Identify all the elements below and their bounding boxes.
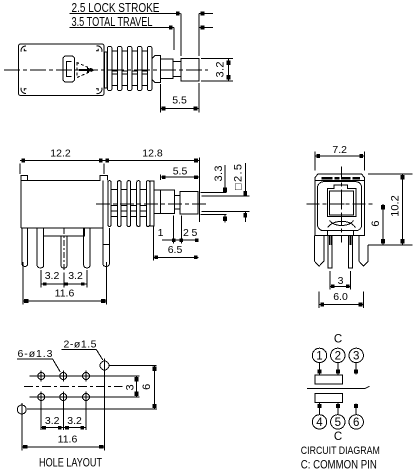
small hole 3 xyxy=(83,371,90,382)
top row line xyxy=(30,375,140,377)
wire terminal 6 open xyxy=(354,404,358,415)
bellows collar view1 xyxy=(104,52,107,88)
dimension label 2.5 LOCK STROKE xyxy=(72,0,160,15)
body right edge xyxy=(102,181,104,229)
svg-text:1: 1 xyxy=(316,351,322,363)
dim 6.0 text xyxy=(333,291,348,303)
movable contact line xyxy=(307,386,370,388)
right leg end view xyxy=(359,236,368,267)
switch body front view xyxy=(21,176,108,229)
button with keyway xyxy=(328,185,356,217)
terminal 4 xyxy=(312,415,326,429)
inner frame end view xyxy=(318,182,362,231)
bellows valleys view1 xyxy=(112,51,147,86)
extension line 6.5 left xyxy=(152,227,154,261)
body top edge line xyxy=(21,180,28,182)
dim 3.2 extension lines view1 xyxy=(201,59,233,82)
dim 5.5 view2 text xyxy=(173,166,188,178)
dim 10.2 extension lines xyxy=(368,174,413,245)
body bottom edge xyxy=(21,227,103,229)
plunger neck view2 xyxy=(174,196,180,210)
svg-text:1: 1 xyxy=(158,227,164,239)
svg-text:6: 6 xyxy=(370,221,382,227)
pin 5 view2 xyxy=(103,228,110,266)
label C bottom xyxy=(334,431,342,443)
dim 12.2 line xyxy=(20,159,104,163)
dim 11.6 line view2 xyxy=(23,299,107,303)
plunger end block view1 xyxy=(181,59,199,82)
spring dome arcs xyxy=(328,221,356,228)
label C: COMMON PIN xyxy=(301,459,377,470)
bellows ribs view2 xyxy=(108,181,150,227)
pin 2 view2 xyxy=(37,228,44,268)
dim 3.2 text view1 xyxy=(215,62,227,78)
pin 1 view2 xyxy=(22,228,28,266)
svg-text:3.2: 3.2 xyxy=(67,415,82,427)
dim 3.3 extension lines xyxy=(201,193,227,215)
dimension label 3.5 TOTAL TRAVEL xyxy=(72,14,153,29)
label CIRCUIT DIAGRAM xyxy=(301,445,380,457)
wire terminal 2 to contact xyxy=(336,363,340,375)
dim 5.5 view2 line xyxy=(161,174,200,180)
svg-text:2: 2 xyxy=(335,351,341,363)
pin 3 center view2 xyxy=(61,236,67,268)
leader line total travel xyxy=(70,26,175,30)
svg-text:6: 6 xyxy=(141,384,153,390)
vertical centerline end view xyxy=(340,166,342,242)
svg-text:5.5: 5.5 xyxy=(172,95,187,107)
dim 7.2 line xyxy=(315,154,365,158)
dim 7.2 text xyxy=(332,144,347,156)
dim 11.6 text hole layout xyxy=(58,434,78,446)
dim 3.2 texts hole layout xyxy=(45,415,82,427)
extension line plunger tip xyxy=(198,14,200,57)
extension line dim1 right xyxy=(180,216,182,244)
svg-text:4: 4 xyxy=(316,417,323,429)
inner pin left end view xyxy=(328,236,332,268)
dim 3.2 pair line hole layout xyxy=(41,426,86,429)
svg-text:5.5: 5.5 xyxy=(173,166,188,178)
wire terminal 5 to contact xyxy=(336,402,340,414)
hole B extension line xyxy=(27,408,157,410)
small hole 5 xyxy=(60,392,67,403)
center cross xyxy=(338,200,345,207)
dim 10.2 text xyxy=(390,195,402,216)
dim 3 hole layout text xyxy=(125,384,137,390)
centerline view2 xyxy=(96,203,209,205)
svg-text:C: C xyxy=(334,334,342,346)
terminal 2 xyxy=(331,348,345,362)
svg-text:11.6: 11.6 xyxy=(55,288,75,300)
dim 12.2 text xyxy=(50,148,71,160)
bellows ribs view1 xyxy=(107,47,152,91)
dim 2.5 text xyxy=(183,227,198,239)
pin 4 view2 xyxy=(84,228,90,268)
svg-text:6: 6 xyxy=(353,417,359,429)
bellows valleys view2 xyxy=(111,189,146,216)
dim 3 extension lines end view xyxy=(330,271,350,290)
centerline view1 xyxy=(4,69,208,71)
svg-text:12.2: 12.2 xyxy=(50,148,71,160)
dim 6 hole layout line xyxy=(153,366,157,410)
plunger neck view1 xyxy=(173,62,181,77)
dim 2.5 extension lines xyxy=(202,196,250,212)
plunger section A view1 xyxy=(152,56,160,83)
horizontal centerline end view xyxy=(307,203,375,205)
dim 3 hole layout line xyxy=(135,376,139,397)
body outline end view xyxy=(315,174,365,236)
pin 3 centerline dashed xyxy=(63,228,65,271)
svg-text:10.2: 10.2 xyxy=(390,195,402,216)
extension line total travel xyxy=(173,28,175,51)
bottom row line xyxy=(30,396,140,398)
terminal 1 xyxy=(312,348,326,362)
svg-text:3.2: 3.2 xyxy=(45,415,60,427)
svg-text:3: 3 xyxy=(353,351,359,363)
dim 12.2 extension line left xyxy=(19,164,21,175)
extension line lock stroke xyxy=(180,14,182,57)
dim 3 text end view xyxy=(338,275,344,287)
leader line lock stroke xyxy=(70,12,181,16)
svg-text:6-ø1.3: 6-ø1.3 xyxy=(18,348,53,360)
dim 3 line end view xyxy=(330,285,350,288)
dim 5.5 line view1 xyxy=(161,107,200,111)
center pedestal xyxy=(44,228,85,236)
dim 6.5 text xyxy=(168,244,183,256)
svg-text:3: 3 xyxy=(125,384,137,390)
dim 3.2 extension lines hole layout xyxy=(41,403,86,431)
dim 12.2 extension line mid xyxy=(103,164,105,175)
corner mark top-left xyxy=(21,46,26,52)
svg-text:□2.5: □2.5 xyxy=(233,164,245,190)
leader 6-dia1.3 xyxy=(17,359,60,372)
dim 11.6 text view2 xyxy=(55,288,75,300)
dim 1 text xyxy=(158,227,164,239)
plunger block view2 xyxy=(154,190,174,214)
svg-text:6.5: 6.5 xyxy=(168,244,183,256)
hole A extension line xyxy=(110,365,157,367)
small hole 4 xyxy=(38,392,45,403)
dim square-2.5 line xyxy=(244,163,248,222)
top strip dash bar xyxy=(322,177,360,180)
svg-text:6.0: 6.0 xyxy=(333,291,348,303)
dim 7.2 extension lines xyxy=(315,152,365,171)
wire terminal 3 open xyxy=(354,363,358,375)
latch arrow xyxy=(79,68,94,73)
svg-text:5: 5 xyxy=(192,227,198,239)
dim 6.0 line xyxy=(319,303,363,307)
svg-text:11.6: 11.6 xyxy=(58,434,78,446)
arrow right row2 xyxy=(199,26,213,30)
svg-text:12.8: 12.8 xyxy=(142,148,163,160)
dim 5.5 extension lines view1 xyxy=(161,83,200,113)
button inner square xyxy=(330,191,354,215)
svg-text:5: 5 xyxy=(335,417,341,429)
dim 3.2 line view1 xyxy=(227,59,231,82)
dim 3.2 texts view2 xyxy=(45,270,83,282)
corner mark bottom-left xyxy=(21,88,26,94)
extension line dim1 left xyxy=(173,216,175,244)
terminal 3 xyxy=(349,348,363,362)
switch body side view xyxy=(19,44,105,96)
dim 6.0 extension lines xyxy=(319,292,363,309)
bellows flange view2 xyxy=(150,181,154,226)
dim 10.2 line xyxy=(401,174,405,245)
svg-text:3.2: 3.2 xyxy=(68,270,83,282)
wire terminal 1 to contact xyxy=(318,363,322,375)
left leg end view xyxy=(315,236,324,267)
arrow right row1 xyxy=(199,12,213,16)
fixed contact bar bottom xyxy=(315,394,343,403)
terminal 6 xyxy=(349,415,363,429)
latch cam cone xyxy=(77,63,94,78)
dim 3.3 line xyxy=(223,165,227,223)
plunger section B view1 xyxy=(161,59,174,79)
dim 5.5 text view1 xyxy=(172,95,187,107)
dim square-2.5 text xyxy=(233,164,245,190)
dim 12.8 line xyxy=(104,159,199,163)
small hole 6 xyxy=(83,392,90,403)
corner mark bottom-right xyxy=(96,88,102,94)
dim 3.2 pair line view2 xyxy=(41,282,87,285)
center tab below body xyxy=(328,231,354,236)
svg-text:3.3: 3.3 xyxy=(213,166,225,182)
small hole 1 xyxy=(38,371,45,382)
hole A large top-right xyxy=(100,359,109,373)
wire terminal 4 to contact xyxy=(318,402,322,414)
svg-text:3.5 TOTAL TRAVEL: 3.5 TOTAL TRAVEL xyxy=(72,14,153,29)
latch bracket inside body xyxy=(63,56,75,82)
dim 3.2 extension lines view2 xyxy=(41,270,87,288)
svg-text:CIRCUIT DIAGRAM: CIRCUIT DIAGRAM xyxy=(301,445,380,457)
dim 11.6 extension lines view2 xyxy=(23,262,107,305)
fixed contact bar top xyxy=(315,375,343,384)
extension line plunger tip view2 xyxy=(198,158,200,223)
svg-text:3: 3 xyxy=(338,275,344,287)
dim 6.5 line xyxy=(153,256,198,259)
dim 12.8 text xyxy=(142,148,163,160)
svg-text:3.2: 3.2 xyxy=(215,62,227,78)
svg-text:3.2: 3.2 xyxy=(45,270,60,282)
dim 11.6 extension lines hole layout xyxy=(22,371,105,451)
svg-text:HOLE LAYOUT: HOLE LAYOUT xyxy=(39,456,103,470)
hole B large bottom-left xyxy=(17,403,26,416)
svg-text:C: C xyxy=(334,431,342,443)
dim 1 and 2.5 line xyxy=(162,238,199,241)
plunger end block view2 xyxy=(180,191,198,214)
inner pin right end view xyxy=(349,236,353,268)
svg-text:2: 2 xyxy=(183,227,189,239)
small hole 2 xyxy=(60,371,67,382)
svg-text:C: COMMON PIN: C: COMMON PIN xyxy=(301,459,377,470)
dashed centerline hole layout xyxy=(24,386,122,388)
label 6-dia1.3 xyxy=(18,348,53,360)
dim 6 hole layout text xyxy=(141,384,153,390)
top strip line xyxy=(315,180,365,182)
corner mark top-right xyxy=(96,46,102,52)
label HOLE LAYOUT xyxy=(39,456,103,470)
svg-text:2-ø1.5: 2-ø1.5 xyxy=(64,339,97,351)
dim 11.6 line hole layout xyxy=(22,445,105,449)
dim 6 text end view xyxy=(370,221,382,227)
label C top xyxy=(334,334,342,346)
svg-text:7.2: 7.2 xyxy=(332,144,347,156)
dim 6 line end view xyxy=(381,204,385,245)
dim 3.3 text xyxy=(213,166,225,182)
label 2-dia1.5 xyxy=(64,339,97,351)
terminal 5 xyxy=(331,415,345,429)
leader 2-dia1.5 xyxy=(61,350,102,360)
